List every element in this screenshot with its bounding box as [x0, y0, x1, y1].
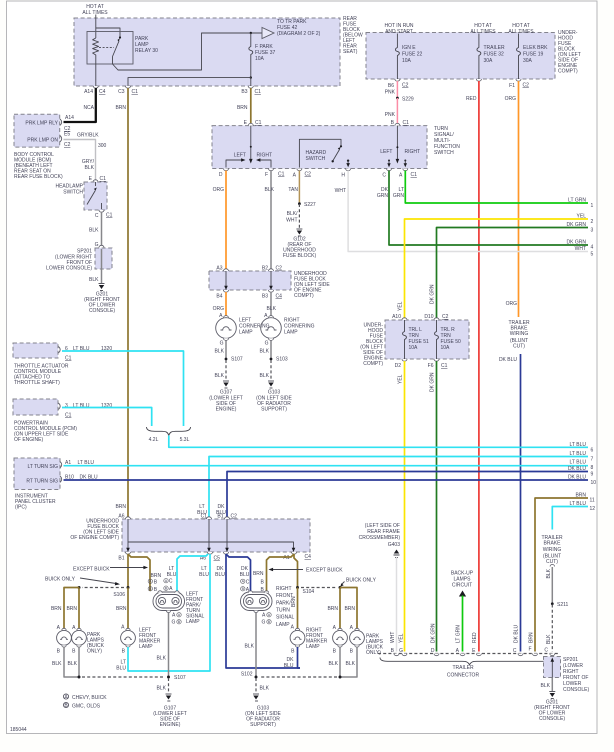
- svg-text:H: H: [341, 173, 345, 179]
- svg-text:BRN: BRN: [253, 571, 264, 577]
- svg-text:BLK: BLK: [260, 373, 270, 379]
- wire label LT BLU / DK BLU above fuse block: [197, 504, 226, 516]
- svg-text:TRAILER: TRAILER: [484, 45, 506, 51]
- svg-text:F6: F6: [428, 363, 434, 369]
- svg-text:S102: S102: [241, 672, 253, 678]
- wire BLK B3 to right cornering lamp A: [267, 292, 277, 316]
- switch internal: E feed arrow: [234, 126, 272, 164]
- svg-text:S229: S229: [402, 97, 414, 103]
- svg-text:BLK: BLK: [346, 661, 356, 667]
- fuse F PARK FUSE 37 10A: [249, 33, 276, 78]
- splice S229: [396, 97, 414, 103]
- pin B C1 bump (switch top): [391, 120, 409, 126]
- svg-text:FUSE 19: FUSE 19: [523, 52, 544, 58]
- svg-text:D: D: [431, 648, 435, 654]
- switch internal: A contact arrow: [404, 160, 407, 168]
- arrow EXCEPT BUICK (left): [73, 566, 148, 573]
- svg-text:A10: A10: [392, 314, 401, 320]
- pin B1 bump (bottom left): [118, 552, 130, 562]
- svg-text:RIGHT: RIGHT: [276, 586, 292, 592]
- label PARK LAMPS (BUICK ONLY) right: [366, 634, 384, 657]
- wire ORG switch D to underhood fuse block A3: [213, 171, 226, 271]
- fuse TRL R TRN FUSE 50 10A: [435, 320, 461, 359]
- wire LT BLU IPC A1 to right edge (8): [64, 460, 594, 472]
- svg-text:6: 6: [591, 448, 594, 454]
- svg-text:BRN: BRN: [51, 606, 62, 612]
- turn signal / multi-function switch box: [212, 126, 427, 169]
- svg-text:OF ENGINE COMPT): OF ENGINE COMPT): [70, 535, 119, 541]
- wire LT BLU from right edge (7) to long fuse block C1: [209, 451, 594, 519]
- svg-text:GRY/BLK: GRY/BLK: [77, 133, 99, 139]
- svg-text:FUSE 32: FUSE 32: [484, 52, 505, 58]
- svg-text:REAR FUSE BLOCK): REAR FUSE BLOCK): [14, 174, 63, 180]
- wire BLK left cornering lamp to S107: [215, 341, 226, 359]
- svg-text:B6: B6: [388, 83, 394, 89]
- svg-text:BLK: BLK: [260, 686, 270, 692]
- wire LT GRN switch A to right edge (1): [393, 171, 594, 210]
- pin E C1 bump headlamp switch: [89, 176, 106, 182]
- svg-text:BRN: BRN: [327, 606, 338, 612]
- pin A C1 bump: [399, 169, 417, 179]
- svg-text:C2: C2: [523, 83, 530, 89]
- label TURN SIGNAL/ MULTI-FUNCTION SWITCH: [434, 126, 460, 156]
- pin A1 C4 bump (bottom): [283, 552, 311, 561]
- trailer connector pins and dashed row: [378, 647, 560, 655]
- svg-text:BLK: BLK: [329, 661, 339, 667]
- svg-text:F: F: [528, 647, 531, 653]
- junction at fuse bottom: [250, 76, 252, 78]
- svg-text:3: 3: [591, 228, 594, 234]
- svg-text:BLK: BLK: [265, 187, 275, 193]
- bump RED output: [476, 79, 481, 81]
- label REAR FUSE BLOCK (BELOW LEFT REAR SEAT): [343, 16, 363, 55]
- svg-text:(IPC): (IPC): [15, 505, 27, 511]
- svg-text:BLU: BLU: [240, 572, 250, 578]
- pin B1 C2 bump (top): [217, 514, 237, 520]
- svg-text:B4: B4: [216, 294, 222, 300]
- svg-text:LT BLU: LT BLU: [570, 451, 587, 457]
- pin F1 C2 bump: [509, 79, 529, 89]
- svg-text:OF ENGINE): OF ENGINE): [14, 437, 44, 443]
- svg-text:B3: B3: [241, 89, 247, 95]
- lamp: RIGHT FRONT PARK/TURN SIGNAL LAMP: [241, 586, 295, 628]
- lamp: PARK LAMP buick 1 (left): [57, 625, 72, 655]
- svg-text:BRN: BRN: [344, 606, 355, 612]
- wire relay switch pivot to F PARK fuse and TO TR PARK arrow: [113, 33, 263, 70]
- wire BLK buick park lamps to S107 joint: [52, 647, 165, 679]
- label UNDERHOOD FUSE BLOCK (ON LEFT SIDE OF ENGINE COMPT): [294, 271, 330, 299]
- svg-text:LAMP: LAMP: [239, 330, 253, 336]
- wire TAN switch A to S227: [288, 171, 299, 204]
- wire BLK S107 to G107 dashed: [215, 360, 226, 380]
- svg-text:C1: C1: [201, 514, 208, 520]
- svg-text:WHT: WHT: [390, 632, 396, 643]
- svg-text:EXCEPT BUICK: EXCEPT BUICK: [73, 567, 110, 573]
- svg-text:RIGHT: RIGHT: [257, 153, 273, 159]
- svg-text:BLK: BLK: [68, 661, 78, 667]
- svg-text:PNK: PNK: [385, 90, 396, 96]
- switch internal: B feed arrow (right section): [380, 126, 420, 164]
- svg-text:C2: C2: [402, 83, 409, 89]
- lamp: PARK LAMP buick 4 (right): [350, 625, 365, 655]
- pin E C1 bump (switch top): [244, 120, 262, 126]
- fuse ELEK BRK FUSE 19 30A: [517, 42, 549, 79]
- svg-text:BLK: BLK: [541, 683, 551, 689]
- splice pack SP201 (LOWER RIGHT FRONT OF LOWER CONSOLE): [46, 245, 112, 271]
- module: INSTRUMENT PANEL CLUSTER (IPC): [14, 458, 98, 511]
- right park/turn lamp pin labels B B: [261, 580, 265, 594]
- svg-text:4.2L: 4.2L: [149, 437, 159, 443]
- svg-text:C: C: [544, 648, 548, 654]
- svg-text:5: 5: [591, 252, 594, 258]
- svg-text:7: 7: [591, 457, 594, 463]
- svg-text:F: F: [265, 172, 268, 178]
- svg-text:LAMP: LAMP: [306, 644, 320, 650]
- svg-text:A14: A14: [84, 89, 93, 95]
- pin D10 C2 bump: [424, 314, 448, 320]
- svg-text:LT GRN: LT GRN: [568, 198, 586, 204]
- svg-text:BRN: BRN: [237, 105, 248, 111]
- pin A3 bump: [216, 266, 228, 272]
- svg-text:8: 8: [591, 465, 594, 471]
- rear fuse block dashed box (right, 3 fuses): [366, 33, 555, 80]
- svg-text:E5: E5: [64, 131, 70, 137]
- junction at fuse top: [250, 32, 252, 34]
- trailer connector bumps: [394, 654, 555, 656]
- svg-text:BLK/: BLK/: [287, 211, 298, 217]
- svg-text:CONSOLE): CONSOLE): [89, 308, 115, 314]
- svg-text:GMC, OLDS: GMC, OLDS: [72, 704, 101, 710]
- pin H bump: [341, 169, 350, 179]
- svg-text:B1: B1: [217, 514, 223, 520]
- svg-text:BLU: BLU: [167, 572, 177, 578]
- wire DK BLU IPC B10 to right edge (10): [64, 475, 597, 487]
- wire BRN A1 to S104 and right park/turn lamp: [253, 554, 298, 591]
- svg-text:C2: C2: [231, 514, 238, 520]
- ground G103 (ON LEFT SIDE OF RADIATOR SUPPORT) bottom: [245, 694, 281, 728]
- svg-text:300: 300: [98, 143, 107, 149]
- svg-text:BLK: BLK: [157, 686, 167, 692]
- svg-text:BRAKE: BRAKE: [544, 541, 562, 547]
- svg-text:C1: C1: [255, 120, 262, 126]
- svg-text:RELAY 30: RELAY 30: [135, 48, 158, 54]
- svg-text:RIGHT: RIGHT: [405, 149, 421, 155]
- svg-text:BRN: BRN: [151, 573, 162, 579]
- wire LT BLU marker lamp B loop to fuse block C5: [116, 554, 210, 672]
- svg-text:5.3L: 5.3L: [180, 437, 190, 443]
- svg-text:GRN: GRN: [393, 193, 405, 199]
- off-page arrow TO TR PARK FUSE 42 (DIAGRAM 2 OF 2): [262, 19, 321, 39]
- svg-text:S104: S104: [303, 589, 315, 595]
- wire BLK SP201 to G201: [89, 269, 101, 283]
- svg-text:A3: A3: [216, 266, 222, 272]
- svg-text:C4: C4: [305, 554, 312, 560]
- relay U: PARK LAMP RELAY 30: [87, 32, 158, 65]
- svg-text:IGN E: IGN E: [402, 45, 416, 51]
- svg-text:ORG: ORG: [213, 187, 225, 193]
- svg-text:ALL TIMES: ALL TIMES: [470, 29, 496, 35]
- wire BLK trailer brake to S211: [546, 565, 555, 604]
- arrow BUICK ONLY (right): [340, 578, 376, 587]
- svg-text:ENGINE): ENGINE): [216, 407, 237, 413]
- svg-text:RED: RED: [472, 632, 478, 643]
- splice S107: [167, 675, 186, 681]
- svg-text:S107: S107: [231, 357, 243, 363]
- lamp: LEFT FRONT PARK/TURN SIGNAL LAMP: [148, 579, 204, 625]
- wire NCA from A14 to BCM PRK LMP RLY: [64, 88, 96, 122]
- svg-text:C1: C1: [106, 213, 113, 219]
- pin A14 C4 bump: [84, 86, 106, 95]
- wire label GRY/BLK: [82, 159, 95, 171]
- wire LT BLU TACM to engine brace (5.3L leg): [62, 351, 184, 426]
- svg-text:C1: C1: [441, 363, 448, 369]
- svg-text:B1: B1: [118, 556, 124, 562]
- svg-text:1: 1: [591, 203, 594, 209]
- svg-text:THROTTLE SHAFT): THROTTLE SHAFT): [14, 380, 60, 386]
- svg-text:TAN: TAN: [288, 187, 298, 193]
- splice S106 and dashed branch to buick park lamps: [51, 586, 130, 630]
- svg-text:LT TURN SIG: LT TURN SIG: [27, 464, 58, 470]
- svg-text:S106: S106: [113, 592, 125, 598]
- svg-text:BRN: BRN: [575, 493, 586, 499]
- svg-text:ELEK BRK: ELEK BRK: [523, 45, 548, 51]
- svg-text:C1: C1: [278, 172, 285, 178]
- pin bump (bottom, dk blu): [224, 552, 229, 554]
- wire BLK S211 to trailer connector C dashed: [546, 605, 552, 652]
- splice pack SP201 (LOWER RIGHT FRONT OF LOWER CONSOLE) right: [544, 657, 590, 694]
- svg-text:G: G: [399, 648, 403, 654]
- wire DK GRN trailer fuse F6 to trailer connector D: [430, 361, 437, 652]
- power label HOT IN RUN AND START: [384, 23, 413, 42]
- svg-text:CIRCUIT: CIRCUIT: [452, 583, 472, 589]
- ground G201 (RIGHT FRONT OF LOWER CONSOLE) right: [534, 692, 570, 723]
- power label HOT AT ALL TIMES: [82, 4, 108, 16]
- svg-text:ONLY): ONLY): [87, 649, 102, 655]
- svg-text:TURN: TURN: [276, 608, 290, 614]
- wire BLK right cornering lamp to S103: [260, 341, 271, 359]
- svg-text:SIGNAL: SIGNAL: [276, 615, 295, 621]
- wire DK GRN switch C to right edge (4): [377, 171, 594, 251]
- svg-text:BRN: BRN: [115, 105, 126, 111]
- svg-text:CUT): CUT): [513, 344, 525, 350]
- fuse IGN E FUSE 22 10A: [395, 42, 422, 79]
- svg-text:YEL: YEL: [399, 633, 405, 643]
- svg-text:BRN: BRN: [291, 596, 297, 607]
- svg-text:30A: 30A: [523, 58, 533, 64]
- fuse TRAILER FUSE 32 30A: [477, 42, 505, 79]
- svg-text:A6: A6: [118, 514, 124, 520]
- svg-text:G403: G403: [388, 542, 400, 548]
- svg-text:BRN: BRN: [116, 606, 127, 612]
- svg-text:YEL: YEL: [577, 214, 587, 220]
- fuse TRL L TRN FUSE 51 10A: [403, 320, 429, 359]
- label BODY CONTROL MODULE (BCM): [14, 152, 63, 180]
- wire RED trailer fuse to trailer connector E: [466, 81, 479, 652]
- svg-text:BLK: BLK: [52, 661, 62, 667]
- svg-text:C2: C2: [64, 142, 71, 148]
- svg-text:10A: 10A: [255, 56, 265, 62]
- lamp: LEFT FRONT MARKER LAMP: [121, 625, 161, 655]
- power label HOT AT ALL TIMES (trailer fuse): [470, 23, 496, 42]
- wire YEL from right edge (2) to trailer fuse A10: [398, 214, 594, 320]
- svg-text:C1: C1: [255, 89, 262, 95]
- svg-text:ORG: ORG: [505, 96, 517, 102]
- long underhood fuse block box: [122, 519, 310, 552]
- svg-text:COMPT): COMPT): [294, 293, 314, 299]
- svg-text:BLK: BLK: [215, 373, 225, 379]
- pin C C1 bump headlamp switch: [95, 210, 113, 219]
- blunt cut label TRAILER BRAKE WIRING (BLUNT CUT): [508, 320, 530, 350]
- ground G107 (LOWER LEFT SIDE OF ENGINE): [209, 381, 243, 413]
- svg-text:BLK: BLK: [546, 568, 552, 578]
- svg-text:G: G: [262, 620, 266, 626]
- wire BLK S107 to G107 dashed: [157, 678, 169, 693]
- wire BRN S104 to right front marker lamp: [291, 588, 298, 630]
- svg-text:C2: C2: [305, 172, 312, 178]
- svg-text:FUSE 22: FUSE 22: [402, 52, 423, 58]
- wire DK BLU fuse block to right park/turn lamp and marker loop: [215, 554, 300, 668]
- wire DK GRN from right edge (3) to trailer fuse D10: [430, 222, 594, 319]
- svg-text:BLK: BLK: [215, 349, 225, 355]
- svg-text:B3: B3: [262, 294, 268, 300]
- svg-text:30A: 30A: [484, 58, 494, 64]
- wire BLK headlamp switch to SP201: [89, 212, 101, 248]
- pin A10 bump: [392, 314, 407, 320]
- ground G403 (LEFT SIDE OF REAR FRAME CROSSMEMBER): [359, 523, 401, 558]
- lamp: PARK LAMP buick 3 (right): [333, 625, 348, 655]
- svg-text:LAMP: LAMP: [284, 330, 298, 336]
- pin A6 C5 bump (bottom): [200, 552, 220, 562]
- wire bus to relay switch contact: [96, 28, 120, 37]
- svg-text:LT GRN: LT GRN: [456, 625, 462, 643]
- ground G107 (LOWER LEFT SIDE OF ENGINE) bottom: [153, 694, 187, 728]
- wire BLK SP201 to G201: [541, 678, 553, 692]
- svg-text:BLK: BLK: [260, 349, 270, 355]
- wire BRN B1 to S106 and left park/turn lamp: [128, 554, 161, 591]
- blunt cut label TRAILER BRAKE WIRING (BLUNT CUT) right: [541, 535, 563, 565]
- pin C3 C1 bump: [118, 86, 138, 95]
- wire WHT switch H to right edge (5): [335, 171, 594, 258]
- svg-text:TRAILER: TRAILER: [452, 665, 474, 671]
- wire LT BLU from right edge (12) to trailer brake blunt cut: [552, 501, 595, 530]
- switch internal: right bracket to F: [256, 158, 271, 167]
- svg-text:BLU: BLU: [199, 572, 209, 578]
- svg-text:LEFT: LEFT: [234, 153, 246, 159]
- pin B4 bump: [216, 290, 228, 300]
- svg-text:AND START: AND START: [385, 29, 413, 35]
- svg-text:PRK LMP RLY: PRK LMP RLY: [25, 121, 58, 127]
- svg-text:G: G: [95, 242, 99, 248]
- svg-text:G: G: [172, 620, 176, 626]
- svg-text:C1: C1: [100, 176, 107, 182]
- rear fuse block (relay) dashed box: [74, 18, 340, 86]
- wire WHT G403 to trailer connector B: [390, 557, 397, 652]
- wire DK BLU trailer brake wiring to trailer connector C: [499, 354, 521, 652]
- wire PNK B6 to S229: [385, 81, 398, 98]
- lamp: LEFT CORNERING LAMP: [216, 313, 270, 347]
- svg-text:185044: 185044: [10, 727, 27, 733]
- svg-text:DK BLU: DK BLU: [514, 625, 520, 643]
- wire fuse output to C3 and B3 bumps: [128, 78, 251, 86]
- svg-text:10A: 10A: [409, 345, 419, 351]
- svg-text:WHT: WHT: [286, 218, 297, 224]
- svg-text:LOWER CONSOLE): LOWER CONSOLE): [46, 266, 92, 272]
- svg-text:C: C: [246, 579, 250, 585]
- svg-text:BLK: BLK: [267, 306, 277, 312]
- wire BLK/WHT S227 to G102: [286, 204, 299, 228]
- wire BLK right park/turn lamp to S102: [245, 613, 256, 678]
- ground G103 (ON LEFT SIDE OF RADIATOR SUPPORT): [256, 381, 292, 413]
- svg-text:C5: C5: [214, 556, 221, 562]
- pin B3 C1 bump: [241, 86, 261, 95]
- label PARK LAMPS (BUICK ONLY) left: [87, 632, 105, 655]
- splice S103: [270, 357, 288, 363]
- BCM box: PRK LMP RLY / PRK LMP ON: [14, 114, 71, 148]
- svg-text:D2: D2: [395, 363, 402, 369]
- arrow EXCEPT BUICK (right): [269, 568, 344, 574]
- svg-text:COMPT): COMPT): [558, 69, 578, 75]
- splice S227: [298, 202, 316, 208]
- svg-text:C1: C1: [403, 120, 410, 126]
- svg-text:C: C: [382, 173, 386, 179]
- svg-text:C1: C1: [411, 172, 418, 178]
- wire YEL trailer fuse D2 to trailer connector G: [398, 361, 405, 652]
- svg-text:CONSOLE): CONSOLE): [539, 716, 565, 722]
- switch internal: H contact arrow: [346, 160, 350, 168]
- svg-text:C4: C4: [276, 294, 283, 300]
- pin B3 C4 bump: [262, 290, 282, 300]
- svg-text:DK BLU: DK BLU: [568, 475, 586, 481]
- pin F C1 bump: [265, 169, 285, 179]
- svg-text:LAMP: LAMP: [186, 619, 200, 625]
- svg-text:SWITCH: SWITCH: [63, 190, 83, 196]
- svg-text:C4: C4: [99, 89, 106, 95]
- svg-text:BRN: BRN: [115, 504, 126, 510]
- pin D bump (switch bottom): [219, 169, 229, 179]
- svg-text:BRN: BRN: [529, 632, 535, 643]
- svg-text:CUT): CUT): [546, 559, 558, 565]
- svg-text:BLU: BLU: [116, 666, 126, 672]
- svg-text:DK GRN: DK GRN: [430, 284, 436, 304]
- svg-text:BLK: BLK: [85, 165, 95, 171]
- svg-text:D: D: [219, 172, 223, 178]
- svg-text:ALL TIMES: ALL TIMES: [82, 10, 108, 16]
- svg-text:BLK: BLK: [546, 634, 552, 644]
- svg-text:BLK: BLK: [157, 656, 167, 662]
- svg-text:4: 4: [591, 245, 594, 251]
- wire BRN S106 to left front marker lamp: [116, 588, 128, 630]
- svg-text:YEL: YEL: [398, 301, 404, 311]
- wire BLK S103 to G103 dashed: [260, 360, 271, 380]
- svg-text:C1: C1: [132, 89, 139, 95]
- wire feed into relay box: [95, 15, 97, 39]
- pin F6 C1 bump: [428, 359, 448, 369]
- pin A6 bump (top): [118, 514, 130, 520]
- legend (A) CHEVY, BUICK / (B) GMC, OLDS: [63, 694, 107, 710]
- splice S107 (cornering): [225, 357, 243, 363]
- back-up lamps circuit arrow: [451, 571, 474, 597]
- svg-text:DK GRN: DK GRN: [567, 222, 587, 228]
- svg-text:CROSSMEMBER): CROSSMEMBER): [359, 535, 401, 541]
- trailer connector brace: [380, 658, 560, 679]
- svg-text:DK BLU: DK BLU: [568, 466, 586, 472]
- svg-text:G: G: [265, 341, 269, 347]
- svg-text:2: 2: [591, 219, 594, 225]
- svg-text:FUSE BLOCK): FUSE BLOCK): [283, 253, 317, 259]
- svg-text:10A: 10A: [402, 58, 412, 64]
- svg-text:A14: A14: [65, 115, 74, 121]
- small underhood fuse block box: [209, 271, 291, 290]
